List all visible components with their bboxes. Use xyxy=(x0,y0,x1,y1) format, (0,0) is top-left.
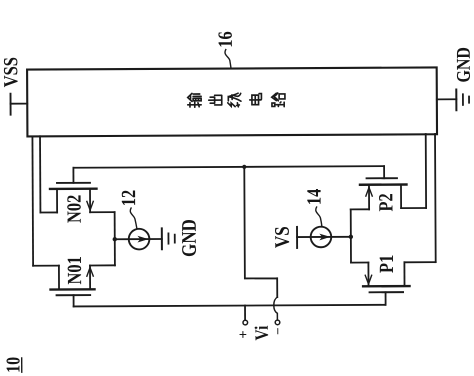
svg-text:P2: P2 xyxy=(375,193,397,211)
svg-text:GND: GND xyxy=(178,219,201,257)
char 出 xyxy=(209,95,222,105)
label 10 (figure reference) xyxy=(2,357,24,373)
char 路 xyxy=(272,93,285,107)
transistor N01 xyxy=(33,265,115,306)
label 14 xyxy=(303,189,325,206)
svg-text:+: + xyxy=(236,330,252,338)
char 输 xyxy=(188,93,201,107)
svg-text:N01: N01 xyxy=(63,256,85,285)
label P1 xyxy=(375,255,397,273)
wire gate rail (Vi- to N02/P2 gates) xyxy=(73,166,384,168)
GND label (top right) xyxy=(452,47,474,83)
wire block bottom-left to N02 xyxy=(39,136,41,212)
svg-text:VSS: VSS xyxy=(0,57,22,87)
input terminal Vi- xyxy=(275,320,280,325)
transistor P2 xyxy=(350,166,426,209)
wire VSS to block xyxy=(11,103,28,105)
wire bottom gate rail (Vi+ to N01/P1 gates) xyxy=(74,305,385,307)
VSS supply terminal bar xyxy=(10,94,12,115)
label + xyxy=(236,330,252,338)
wire N02/N01 common node vertical xyxy=(114,212,116,265)
transistor N02 xyxy=(40,168,114,213)
current source 12 xyxy=(115,229,162,250)
Chinese text 输出级电路 (output stage circuit), drawn as paths xyxy=(188,93,285,107)
wire block bottom-left to N01 (long left vertical) xyxy=(31,136,34,265)
svg-text:16: 16 xyxy=(214,31,236,48)
wire block to ground (top right) xyxy=(437,98,456,100)
VS label xyxy=(271,226,294,248)
svg-text:10: 10 xyxy=(2,357,24,373)
svg-text:P1: P1 xyxy=(375,255,397,273)
ground (current source 12) xyxy=(161,228,163,249)
svg-text:14: 14 xyxy=(303,189,325,206)
node current source 14 tap xyxy=(349,235,353,239)
char 电 xyxy=(250,94,262,105)
wire hop over bottom rail xyxy=(274,297,278,320)
wire Vi- jog from gate rail xyxy=(244,167,277,298)
label Vi xyxy=(251,325,272,340)
wire Vi+ stub xyxy=(244,306,246,320)
svg-text:−: − xyxy=(270,327,285,335)
svg-text:VS: VS xyxy=(271,226,294,248)
label N01 xyxy=(63,256,85,285)
wire block bottom-right to P2 xyxy=(425,134,427,208)
ground (top right) xyxy=(455,90,457,111)
VS supply terminal bar xyxy=(296,227,298,248)
input terminal Vi+ xyxy=(243,320,248,325)
transistor P1 xyxy=(351,209,436,305)
current source 14 xyxy=(297,227,351,248)
svg-text:Vi: Vi xyxy=(251,325,272,340)
output stage block U16 xyxy=(27,67,437,136)
wire block bottom-right to P1 xyxy=(434,134,437,262)
svg-text:12: 12 xyxy=(118,190,140,207)
label - xyxy=(270,327,285,335)
label N02 xyxy=(63,195,85,224)
VSS label xyxy=(0,57,22,87)
label P2 xyxy=(375,193,397,211)
svg-text:N02: N02 xyxy=(63,195,85,224)
node current source 12 tap xyxy=(113,237,117,241)
char 级 xyxy=(228,93,241,107)
GND label (current source 12) xyxy=(178,219,201,257)
node gate-rail junction xyxy=(242,165,246,169)
label 16 xyxy=(214,31,236,48)
svg-text:GND: GND xyxy=(452,47,474,83)
label 12 xyxy=(118,190,140,207)
